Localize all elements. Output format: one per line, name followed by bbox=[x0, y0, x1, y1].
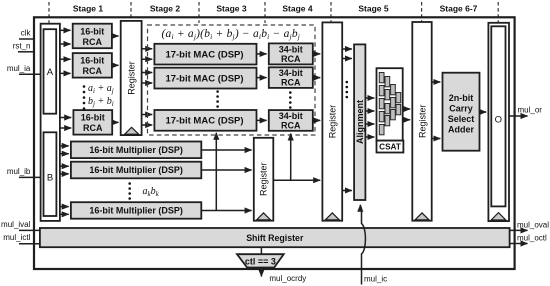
module border bbox=[34, 17, 515, 269]
stage divider 4 bbox=[264, 2, 266, 23]
wire A to RCA2 a bbox=[60, 58, 71, 60]
wire RCA2 to register1 bbox=[112, 64, 119, 66]
output block O bbox=[488, 23, 509, 221]
wire R5 to adder a bbox=[432, 81, 441, 83]
operand block B bbox=[44, 132, 57, 216]
wire A to RCA2 b bbox=[60, 72, 71, 74]
wire B to mult3 b bbox=[60, 213, 69, 215]
stage divider 2 bbox=[130, 2, 132, 23]
svg-text:RCA: RCA bbox=[83, 37, 103, 47]
2n-bit carry select adder bbox=[443, 73, 480, 151]
svg-text:mul_ictl: mul_ictl bbox=[3, 233, 30, 242]
register R1 bbox=[121, 21, 142, 135]
svg-text:Select: Select bbox=[448, 114, 475, 124]
input clk wire bbox=[19, 38, 34, 40]
stage divider 3 bbox=[198, 2, 200, 23]
wire RCA34-3 to R4 bbox=[313, 119, 320, 121]
svg-text:16-bit: 16-bit bbox=[80, 26, 104, 36]
output mul_octl wire bbox=[510, 243, 528, 245]
wire RCA3 to register1 bbox=[112, 121, 118, 123]
svg-text:mul_octl: mul_octl bbox=[517, 233, 547, 242]
input mul_ictl wire bbox=[19, 243, 40, 245]
svg-text:O: O bbox=[495, 114, 502, 125]
wire adder to O bbox=[480, 111, 487, 113]
input mul_ic wire bbox=[360, 205, 365, 285]
wire MAC1 to RCA34 1 bbox=[257, 53, 267, 55]
wire R1 to MAC2 b bbox=[142, 82, 153, 84]
wire R5 to adder b bbox=[432, 138, 441, 140]
wire A to RCA3 b bbox=[60, 127, 71, 129]
wire MAC2 to RCA34 2 bbox=[257, 77, 267, 79]
wire B to mult1 b bbox=[60, 153, 69, 155]
34-bit RCA 2 bbox=[269, 67, 313, 88]
16-bit multiplier 1 bbox=[71, 142, 201, 159]
svg-text:16-bit Multiplier (DSP): 16-bit Multiplier (DSP) bbox=[89, 145, 183, 155]
svg-text:Carry: Carry bbox=[449, 104, 473, 114]
16-bit RCA 1 bbox=[73, 24, 112, 49]
17-bit MAC 1 bbox=[154, 44, 256, 65]
CSAT label box bbox=[377, 141, 404, 153]
svg-text:clk: clk bbox=[21, 29, 32, 38]
svg-text:34-bit: 34-bit bbox=[279, 111, 303, 121]
svg-text:Stage 4: Stage 4 bbox=[282, 4, 313, 14]
svg-text:mul_ic: mul_ic bbox=[364, 275, 387, 284]
svg-text:17-bit MAC (DSP): 17-bit MAC (DSP) bbox=[165, 116, 243, 127]
16-bit RCA 3 bbox=[73, 110, 112, 135]
wire B to mult1 a bbox=[60, 145, 69, 147]
wire A to RCA1 a bbox=[60, 29, 71, 31]
svg-text:16-bit Multiplier (DSP): 16-bit Multiplier (DSP) bbox=[89, 206, 183, 216]
svg-text:mul_ia: mul_ia bbox=[7, 64, 31, 73]
svg-text:Stage 6-7: Stage 6-7 bbox=[440, 4, 478, 14]
stage divider 6 bbox=[421, 2, 423, 23]
16-bit multiplier 3 bbox=[71, 202, 201, 219]
svg-text:mul_ib: mul_ib bbox=[7, 167, 31, 176]
ellipsis MAC group bbox=[216, 90, 219, 108]
svg-text:17-bit MAC (DSP): 17-bit MAC (DSP) bbox=[165, 73, 243, 84]
16-bit RCA 2 bbox=[73, 53, 112, 78]
wire R4 to alignment c bbox=[342, 190, 352, 192]
16-bit multiplier 2 bbox=[71, 162, 201, 179]
svg-text:34-bit: 34-bit bbox=[279, 68, 303, 78]
wire alignment to CSAT 3 bbox=[365, 123, 374, 125]
ellipsis RCA34 group bbox=[289, 91, 292, 109]
svg-text:16-bit: 16-bit bbox=[80, 56, 104, 66]
shift register bbox=[40, 228, 510, 247]
wire RCA34-2 to R4 bbox=[313, 77, 320, 79]
wire R4 to alignment a bbox=[342, 48, 352, 50]
register R2 bbox=[254, 138, 273, 221]
svg-text:RCA: RCA bbox=[83, 123, 103, 133]
input mul_ia wire bbox=[19, 73, 41, 75]
ellipsis multiplier group bbox=[128, 182, 131, 200]
wire alignment to CSAT 1 bbox=[365, 97, 374, 99]
wire A to RCA1 b bbox=[60, 43, 71, 45]
stage divider 5 bbox=[330, 2, 332, 23]
input rst_n wire bbox=[18, 51, 34, 53]
svg-text:16-bit: 16-bit bbox=[81, 113, 105, 123]
wire A to RCA3 a bbox=[60, 117, 71, 119]
svg-text:Shift Register: Shift Register bbox=[246, 233, 304, 243]
wire CSAT to R5 a bbox=[403, 108, 410, 110]
svg-text:mul_ocrdy: mul_ocrdy bbox=[269, 274, 306, 283]
ellipsis R4-alignment group bbox=[346, 81, 349, 99]
wire R4 to alignment b bbox=[342, 58, 352, 60]
svg-text:34-bit: 34-bit bbox=[279, 44, 303, 54]
stage 2-4 dashed box bbox=[148, 25, 316, 135]
wire shiftreg to ctl comparator bbox=[260, 247, 262, 276]
wire R2 to R4 bbox=[273, 179, 320, 181]
stage divider 7 bbox=[497, 2, 499, 23]
svg-text:rst_n: rst_n bbox=[13, 41, 31, 50]
svg-text:ctl == 3: ctl == 3 bbox=[245, 256, 276, 266]
input operand container AB bbox=[41, 24, 60, 221]
svg-text:Register: Register bbox=[259, 162, 269, 196]
17-bit MAC 3 bbox=[154, 110, 256, 131]
svg-text:Adder: Adder bbox=[448, 125, 475, 135]
svg-text:akbk: akbk bbox=[143, 186, 160, 198]
svg-text:Register: Register bbox=[417, 105, 427, 139]
wire mult2 to R2 bbox=[201, 169, 251, 171]
wire R2 branch to RCA34-3 bbox=[290, 134, 292, 181]
register R4 bbox=[322, 22, 342, 220]
stage divider 1 bbox=[48, 2, 50, 23]
output mul_oval wire bbox=[510, 229, 528, 231]
input mul_ival wire bbox=[19, 229, 40, 231]
wire B to mult2 a bbox=[60, 165, 69, 167]
wire R1 to MAC2 a bbox=[142, 72, 153, 74]
svg-text:Stage 1: Stage 1 bbox=[73, 4, 104, 14]
svg-text:Stage 2: Stage 2 bbox=[150, 4, 181, 14]
svg-text:17-bit MAC (DSP): 17-bit MAC (DSP) bbox=[165, 49, 243, 60]
svg-text:RCA: RCA bbox=[281, 121, 301, 131]
svg-text:16-bit Multiplier (DSP): 16-bit Multiplier (DSP) bbox=[89, 165, 183, 175]
svg-text:bj + bi: bj + bi bbox=[88, 96, 114, 108]
wire mult1 to R2 bbox=[201, 149, 251, 151]
wire R1 to MAC3 a bbox=[142, 114, 153, 116]
svg-text:ai + aj: ai + aj bbox=[88, 83, 114, 95]
ctl comparator trapezoid bbox=[237, 254, 284, 267]
wire B to mult2 b bbox=[60, 173, 69, 175]
CSAT adder cells bbox=[379, 73, 400, 135]
wire R1 to MAC3 b bbox=[142, 124, 153, 126]
34-bit RCA 1 bbox=[269, 43, 313, 64]
svg-text:Register: Register bbox=[126, 61, 136, 95]
wire alignment to CSAT 4 bbox=[365, 136, 374, 138]
wire MAC3 to RCA34 3 bbox=[257, 119, 267, 121]
svg-text:RCA: RCA bbox=[281, 54, 301, 64]
wire RCA34-1 to R4 bbox=[313, 53, 320, 55]
svg-text:mul_ival: mul_ival bbox=[1, 220, 31, 229]
wire R1 to MAC1 b bbox=[142, 58, 153, 60]
ellipsis RCA group bbox=[83, 85, 86, 110]
svg-text:Stage 5: Stage 5 bbox=[358, 4, 389, 14]
svg-text:Alignment: Alignment bbox=[355, 100, 365, 144]
CSAT box bbox=[377, 68, 403, 140]
wire CSAT to R5 b bbox=[403, 119, 410, 121]
svg-text:B: B bbox=[47, 172, 53, 183]
register R5 bbox=[412, 22, 431, 221]
svg-text:Register: Register bbox=[328, 105, 338, 139]
svg-text:RCA: RCA bbox=[83, 66, 103, 76]
wire alignment to CSAT 2 bbox=[365, 110, 374, 112]
wire R1 to MAC1 a bbox=[142, 48, 153, 50]
wire mult taps to MAC3 bbox=[215, 133, 217, 211]
svg-text:mul_oval: mul_oval bbox=[517, 220, 549, 229]
output mul_or wire bbox=[509, 115, 528, 117]
17-bit MAC 2 bbox=[154, 68, 256, 89]
svg-text:A: A bbox=[47, 67, 54, 78]
wire B to mult3 a bbox=[60, 206, 69, 208]
svg-text:mul_or: mul_or bbox=[518, 106, 543, 115]
34-bit RCA 3 bbox=[269, 110, 313, 131]
svg-text:RCA: RCA bbox=[281, 78, 301, 88]
svg-text:(ai + aj)(bi + bj) − aibi − aj: (ai + aj)(bi + bj) − aibi − ajbj bbox=[162, 28, 301, 41]
svg-text:CSAT: CSAT bbox=[379, 143, 401, 152]
wire RCA1 to register1 bbox=[112, 35, 119, 37]
wire mult3 to R2 bbox=[201, 210, 251, 212]
input mul_ib wire bbox=[19, 176, 41, 178]
operand block A bbox=[44, 29, 57, 114]
alignment block bbox=[354, 44, 365, 200]
svg-text:2n-bit: 2n-bit bbox=[449, 93, 474, 103]
svg-text:Stage 3: Stage 3 bbox=[216, 4, 247, 14]
